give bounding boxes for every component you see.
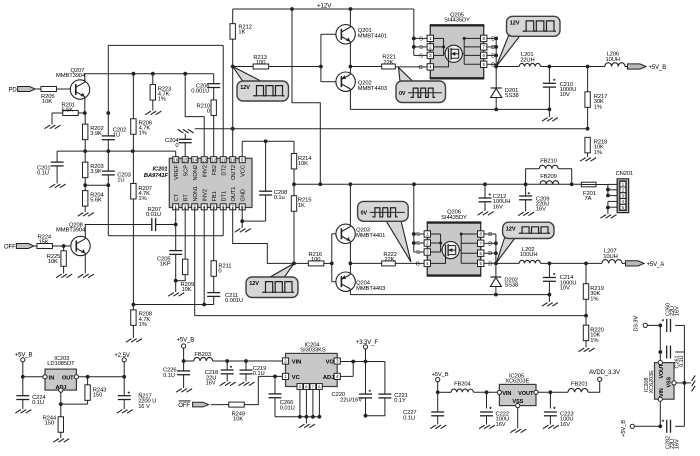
- svg-text:SI3033KS: SI3033KS: [300, 348, 326, 354]
- svg-text:LD1085DT: LD1085DT: [47, 361, 75, 367]
- svg-text:22U/16V: 22U/16V: [340, 397, 362, 403]
- svg-text:0.001U: 0.001U: [191, 89, 209, 95]
- svg-text:0.01U: 0.01U: [280, 405, 295, 411]
- svg-text:1KP: 1KP: [160, 262, 171, 268]
- svg-text:0: 0: [207, 109, 210, 115]
- svg-text:12V: 12V: [249, 281, 259, 287]
- svg-text:+5V_A: +5V_A: [647, 262, 665, 268]
- svg-text:1%: 1%: [594, 150, 602, 156]
- svg-text:FB1: FB1: [212, 191, 218, 201]
- svg-text:VSS: VSS: [512, 399, 523, 405]
- svg-text:+5V_B: +5V_B: [177, 338, 195, 344]
- svg-text:S: S: [419, 45, 423, 51]
- svg-text:S: S: [419, 36, 423, 42]
- svg-text:0.1U: 0.1U: [32, 400, 44, 406]
- svg-text:10UH: 10UH: [603, 254, 617, 260]
- svg-text:10V: 10V: [560, 286, 570, 292]
- svg-text:IN: IN: [49, 375, 54, 381]
- svg-text:XC6203E: XC6203E: [649, 370, 655, 394]
- svg-text:FB2: FB2: [212, 165, 218, 175]
- svg-text:D: D: [488, 232, 492, 238]
- svg-text:S: S: [416, 250, 420, 256]
- svg-text:FB209: FB209: [540, 174, 557, 180]
- svg-text:+5V_B: +5V_B: [432, 372, 449, 378]
- svg-text:16 V: 16 V: [138, 404, 150, 410]
- svg-text:OUT: OUT: [62, 375, 74, 381]
- svg-text:1%: 1%: [139, 131, 147, 137]
- svg-text:16V: 16V: [560, 422, 570, 428]
- svg-text:BA9741F: BA9741F: [144, 173, 169, 179]
- svg-text:0.1u: 0.1u: [274, 195, 285, 201]
- svg-text:CN201: CN201: [616, 171, 634, 177]
- svg-text:DT1: DT1: [221, 191, 227, 202]
- svg-text:GND: GND: [240, 189, 246, 201]
- svg-text:MMBT3904: MMBT3904: [56, 227, 86, 233]
- svg-text:12: 12: [211, 157, 216, 162]
- svg-text:IC201: IC201: [153, 167, 168, 173]
- svg-text:16: 16: [173, 157, 178, 162]
- svg-text:0.1U: 0.1U: [37, 170, 49, 176]
- svg-text:0.1U: 0.1U: [163, 373, 175, 379]
- svg-text:FB201: FB201: [571, 382, 588, 388]
- svg-text:1%: 1%: [139, 322, 147, 328]
- svg-text:FB210: FB210: [540, 158, 557, 164]
- svg-text:MMBT4403: MMBT4403: [358, 86, 387, 92]
- svg-text:16V: 16V: [675, 306, 681, 316]
- svg-text:S: S: [416, 241, 420, 247]
- svg-text:1%: 1%: [590, 296, 598, 302]
- svg-text:D: D: [488, 251, 492, 257]
- svg-text:SS38: SS38: [505, 93, 519, 99]
- svg-text:5.6K: 5.6K: [90, 198, 102, 204]
- svg-text:0.001U: 0.001U: [225, 298, 243, 304]
- svg-text:RT: RT: [183, 194, 189, 202]
- svg-text:12V: 12V: [240, 85, 250, 91]
- svg-text:SCP: SCP: [183, 165, 189, 177]
- svg-text:VIN: VIN: [502, 391, 511, 397]
- svg-text:10K: 10K: [42, 99, 52, 105]
- svg-text:15: 15: [183, 157, 188, 162]
- svg-text:1K: 1K: [238, 30, 245, 36]
- svg-text:INV2: INV2: [202, 165, 208, 177]
- svg-text:MMBT4401: MMBT4401: [356, 233, 385, 239]
- svg-text:22K: 22K: [384, 257, 394, 263]
- svg-text:G: G: [419, 65, 423, 71]
- svg-text:13: 13: [202, 157, 207, 162]
- svg-text:14: 14: [192, 157, 197, 162]
- svg-text:G: G: [416, 261, 420, 267]
- svg-text:AVDD_3.3V: AVDD_3.3V: [589, 370, 620, 376]
- svg-text:5.6K: 5.6K: [62, 107, 74, 113]
- svg-text:+5V_B: +5V_B: [649, 65, 667, 71]
- svg-text:VOUT: VOUT: [518, 391, 534, 397]
- svg-text:D3.3V: D3.3V: [633, 316, 639, 332]
- svg-text:10K: 10K: [233, 417, 243, 423]
- svg-text:VOUT: VOUT: [659, 363, 665, 378]
- svg-text:1U: 1U: [113, 132, 120, 138]
- svg-text:VC: VC: [292, 375, 301, 381]
- svg-text:11: 11: [221, 157, 226, 162]
- svg-text:15K: 15K: [39, 240, 49, 246]
- svg-text:150: 150: [93, 393, 102, 399]
- svg-text:10UH: 10UH: [606, 57, 620, 63]
- svg-text:D: D: [488, 261, 492, 267]
- svg-text:DT2: DT2: [221, 165, 227, 176]
- svg-text:FB203: FB203: [194, 352, 211, 358]
- svg-text:MMBT3904: MMBT3904: [56, 73, 86, 79]
- svg-text:16V: 16V: [206, 381, 216, 387]
- svg-text:ADJ: ADJ: [323, 375, 334, 381]
- svg-text:OFF: OFF: [178, 403, 190, 409]
- svg-text:1K: 1K: [298, 203, 305, 209]
- svg-text:1%: 1%: [594, 104, 602, 110]
- svg-text:VIN: VIN: [659, 388, 665, 397]
- svg-text:NON2: NON2: [193, 165, 199, 181]
- svg-text:+5V_B: +5V_B: [621, 420, 627, 437]
- svg-text:XC6203E: XC6203E: [505, 379, 529, 385]
- svg-text:0V: 0V: [361, 211, 368, 217]
- svg-text:0.01U: 0.01U: [146, 212, 161, 218]
- svg-text:10K: 10K: [298, 161, 308, 167]
- svg-text:+2.5V: +2.5V: [114, 353, 129, 359]
- svg-text:1%: 1%: [138, 196, 146, 202]
- svg-text:FB204: FB204: [454, 381, 471, 387]
- svg-text:MMBT4403: MMBT4403: [356, 286, 385, 292]
- svg-text:PD: PD: [9, 88, 18, 94]
- svg-text:S: S: [419, 53, 423, 59]
- svg-text:0.1U: 0.1U: [403, 415, 415, 421]
- svg-text:MMBT4401: MMBT4401: [358, 33, 387, 39]
- svg-text:0: 0: [175, 143, 178, 149]
- svg-text:7A: 7A: [585, 196, 592, 202]
- svg-text:1%: 1%: [158, 97, 166, 103]
- svg-text:12V: 12V: [506, 226, 516, 232]
- svg-text:NON1: NON1: [193, 186, 199, 202]
- svg-text:INV2: INV2: [202, 189, 208, 201]
- svg-text:1%: 1%: [590, 338, 598, 344]
- svg-text:150: 150: [45, 421, 54, 427]
- svg-text:100: 100: [256, 60, 265, 66]
- svg-text:22K: 22K: [383, 60, 393, 66]
- svg-text:VO: VO: [326, 360, 335, 366]
- svg-text:3.9K: 3.9K: [90, 131, 102, 137]
- svg-text:10V: 10V: [560, 92, 570, 98]
- svg-text:22UH: 22UH: [520, 57, 534, 63]
- svg-text:VCC: VCC: [240, 165, 246, 177]
- svg-text:16V: 16V: [496, 422, 506, 428]
- svg-text:D: D: [488, 241, 492, 247]
- svg-text:0V: 0V: [399, 91, 406, 97]
- svg-text:3.9K: 3.9K: [90, 169, 102, 175]
- svg-text:VIN: VIN: [292, 360, 301, 366]
- svg-text:16V: 16V: [493, 204, 503, 210]
- svg-text:100UH: 100UH: [520, 252, 538, 258]
- svg-text:OFF: OFF: [4, 244, 16, 250]
- svg-text:0.1Y: 0.1Y: [394, 398, 406, 404]
- svg-text:0: 0: [218, 269, 221, 275]
- svg-text:VREF: VREF: [174, 164, 180, 180]
- svg-text:16V: 16V: [536, 207, 546, 213]
- svg-text:100: 100: [311, 257, 320, 263]
- svg-text:10K: 10K: [182, 287, 192, 293]
- svg-text:S: S: [416, 232, 420, 238]
- svg-text:OUT1: OUT1: [231, 187, 237, 202]
- svg-text:10: 10: [230, 157, 235, 162]
- svg-text:1U: 1U: [117, 178, 124, 184]
- svg-text:SS38: SS38: [504, 283, 518, 289]
- svg-text:0.1U: 0.1U: [679, 355, 685, 366]
- svg-text:12V: 12V: [510, 21, 520, 27]
- svg-text:OUT2: OUT2: [231, 165, 237, 180]
- svg-text:SI4435DY: SI4435DY: [444, 18, 470, 24]
- svg-text:CT: CT: [174, 193, 180, 201]
- svg-text:16V: 16V: [675, 439, 681, 449]
- svg-text:SI4435DY: SI4435DY: [441, 215, 467, 221]
- svg-text:10K: 10K: [48, 259, 58, 265]
- svg-text:VSS: VSS: [666, 377, 672, 388]
